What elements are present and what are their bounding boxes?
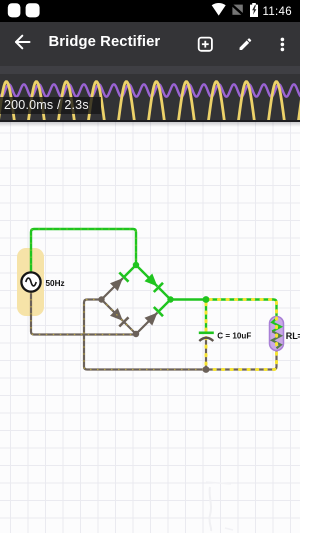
diode D3 (left to bottom node)	[102, 300, 137, 335]
capacitor C1 lead bottom (dark)	[205, 339, 207, 370]
resistor RL body	[270, 317, 284, 351]
node junction cap bottom (dark)	[203, 366, 210, 373]
svg-text:C = 10uF: C = 10uF	[217, 331, 251, 340]
faint scribble mark	[209, 487, 211, 531]
diode D4 (bottom to right node)	[136, 300, 171, 335]
wire net DC minus (dark)	[84, 300, 277, 370]
svg-text:11:46: 11:46	[263, 6, 292, 18]
node bottom (dark)	[133, 331, 139, 337]
node left (dark)	[98, 296, 104, 302]
svg-text:=: =	[297, 331, 300, 341]
faint current dashes green net	[31, 229, 136, 272]
toolbar	[0, 22, 300, 66]
wire net DC plus (green)	[171, 300, 277, 318]
node top (green)	[133, 262, 139, 268]
wire net source bottom (dark)	[31, 292, 136, 335]
circuit canvas	[0, 122, 300, 533]
faint current dashes dark nets	[31, 292, 206, 370]
node right (green)	[167, 296, 173, 302]
status bar	[0, 0, 300, 22]
oscilloscope	[0, 66, 300, 122]
voltage source V1 50Hz	[21, 272, 40, 291]
bright current dashes (load branch)	[206, 300, 277, 370]
svg-text:50Hz: 50Hz	[46, 279, 65, 288]
wire net V+ top (green)	[31, 229, 136, 272]
diode D1 (left to top node)	[102, 265, 137, 300]
selection highlight	[17, 248, 44, 316]
capacitor C1 plates	[199, 333, 214, 341]
node junction cap top (green)	[203, 296, 210, 303]
capacitor C1 lead top (green)	[205, 300, 207, 332]
diode D2 (top to right node)	[136, 265, 171, 300]
